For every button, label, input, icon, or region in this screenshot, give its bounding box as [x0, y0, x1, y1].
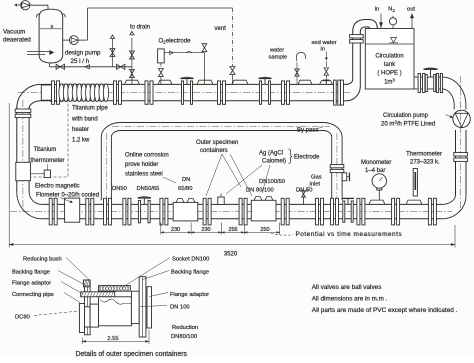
valve on riser 2 lower [129, 70, 134, 74]
pipe: bypass top run [121, 122, 324, 124]
wire: pump to vessel top [30, 4, 48, 6]
pipe: bypass left leg [100, 137, 102, 200]
svg-text:inlet: inlet [310, 182, 321, 188]
svg-text:heater: heater [72, 127, 89, 133]
svg-text:273–323 k.: 273–323 k. [410, 160, 440, 166]
flange pair L8 [357, 198, 360, 225]
valve boss on bypass right leg [342, 173, 347, 181]
hump reducer upper 1 [158, 80, 172, 84]
valve V1 on drain header [56, 64, 60, 69]
svg-text:Electro magnetic: Electro magnetic [35, 184, 80, 190]
detail leaders right [122, 258, 170, 288]
flange pair L7 [281, 198, 284, 225]
pipe: left vertical (titanium) leg [16, 107, 18, 192]
svg-text:All parts are made of PVC exc: All parts are made of PVC except where i… [312, 307, 458, 314]
thermometer boss on left leg [16, 162, 31, 180]
detail: socket crosshatched block [99, 286, 131, 292]
gas inlet valve DN50 [303, 198, 305, 205]
svg-text:tank: tank [384, 62, 396, 68]
extension line far left of loop [8, 103, 10, 248]
svg-text:20 m3/h PTFE Lined: 20 m3/h PTFE Lined [381, 120, 435, 128]
open triangle on riser 1 [110, 35, 114, 38]
vessel sparger inlet [27, 50, 51, 52]
hump reducer upper 5 [320, 81, 333, 85]
pipe: pump discharge vertical [455, 130, 457, 195]
svg-text:out: out [407, 7, 415, 13]
pipe: upper row body rails [41, 83, 346, 85]
level symbol nabla [391, 38, 397, 43]
flange pair L2 [86, 198, 89, 225]
centerline lower row [10, 211, 452, 213]
flange pair L4 [160, 198, 163, 225]
wire: O2 electrode signal line [164, 52, 204, 54]
detail: left backing flange [85, 280, 91, 335]
detail: connecting pipe steps [79, 304, 84, 333]
open triangle riser 2 [130, 32, 134, 35]
svg-text:All valves are ball valves: All valves are ball valves [312, 284, 382, 291]
elbow: tank outlet down to pump [442, 77, 466, 105]
valve on vent riser [230, 67, 235, 71]
wire: top header line [88, 7, 233, 9]
branch: drain riser 1 [112, 39, 114, 67]
branch: right O2 riser [203, 53, 205, 85]
flange pair L1 [49, 198, 52, 225]
leader to flowmeter [60, 198, 73, 203]
centerline bypass legs [105, 133, 107, 206]
wire: vessel bottom outlet [49, 63, 51, 67]
svg-text:Thermometer: Thermometer [406, 152, 442, 158]
elbow: riser top into tank [353, 20, 378, 33]
svg-text:Connecting pipe: Connecting pipe [12, 292, 54, 298]
hump reducer upper 3 [232, 80, 248, 84]
electrode stem on row [218, 197, 224, 205]
svg-text:x: x [51, 24, 54, 30]
svg-text:sed water: sed water [312, 40, 337, 46]
centerline upper row [18, 92, 350, 94]
pump: design pump symbol [63, 39, 70, 41]
svg-text:230: 230 [201, 227, 210, 233]
elbow: lower-left [17, 192, 42, 219]
svg-text:N2: N2 [388, 7, 395, 13]
thermometer [413, 169, 417, 197]
svg-text:Backing flange: Backing flange [171, 270, 209, 276]
svg-text:deaerated: deaerated [3, 37, 31, 44]
flange pair F1 upper [52, 81, 55, 104]
flange pair L6 [239, 198, 242, 225]
pipe: tank riser vertical [352, 32, 354, 80]
svg-text:prove holder: prove holder [125, 162, 158, 168]
branch: to-drain riser 2 [131, 38, 133, 85]
svg-text:Flometer 0–20/h cooled: Flometer 0–20/h cooled [36, 193, 99, 199]
svg-text:DN50/65: DN50/65 [137, 186, 160, 192]
svg-text:2.55: 2.55 [107, 336, 118, 342]
svg-text:Online corrosion: Online corrosion [125, 153, 169, 159]
leaders from electrode label [226, 165, 262, 194]
valve with handwheel upper 2 [260, 81, 262, 104]
flange pair L9 [392, 198, 395, 225]
detail: right flange adaptor [147, 287, 152, 328]
detail: reducing bush hatched [83, 280, 90, 287]
wire: water sample dip line [296, 62, 298, 84]
elbow: bypass top-right [323, 123, 342, 138]
hump reducer upper 4 [298, 80, 312, 84]
band heater helix on titanium pipe [59, 84, 64, 102]
flange pair F3 upper [145, 81, 148, 104]
svg-text:1.2 kw: 1.2 kw [72, 138, 90, 144]
svg-text:250: 250 [260, 227, 269, 233]
valve on water sample line [295, 69, 299, 73]
svg-text:Ag (AgCl: Ag (AgCl [259, 151, 283, 157]
flange pair on tank outlet [418, 74, 420, 93]
detail: main container cylinder DN100 [99, 297, 132, 326]
container 1: outer specimen container [173, 202, 198, 221]
valve with handwheel lower 1 [138, 200, 140, 222]
flange pair F2 upper [114, 81, 117, 104]
tank nozzle: N2 with gauge [389, 18, 396, 25]
centerline left leg [22, 100, 24, 211]
detail: reduction piece [131, 291, 139, 323]
pump: circulation pump [453, 110, 470, 127]
svg-text:design pump: design pump [65, 50, 101, 57]
hump with thermometer tap [406, 200, 422, 204]
svg-text:Reducing bush: Reducing bush [23, 257, 62, 263]
pipe: bypass right leg [331, 137, 333, 200]
svg-text:with band: with band [71, 117, 98, 123]
detail: flange adaptor hatched strip [81, 292, 115, 297]
elbow: upper row right end turning up [346, 87, 360, 101]
hump reducer upper 2 [197, 80, 213, 84]
svg-text:Circulation: Circulation [375, 54, 403, 60]
svg-text:Socket DN100: Socket DN100 [172, 257, 209, 263]
leader to pump [446, 115, 453, 118]
svg-text:1–4 bar: 1–4 bar [365, 168, 385, 174]
centerline bypass run [112, 126, 330, 128]
svg-text:O2electrode: O2electrode [159, 38, 192, 44]
detail dimension 255 [82, 340, 149, 342]
valve on drain riser 1 [110, 49, 115, 53]
svg-text:DN 80/100: DN 80/100 [246, 188, 274, 194]
svg-text:Details of outer specimen cont: Details of outer specimen containers [76, 351, 188, 358]
svg-text:( HOPE ): ( HOPE ) [377, 71, 401, 77]
water sample hook symbol [297, 53, 306, 62]
pipe: tank outlet [414, 76, 442, 78]
svg-text:By pass: By pass [297, 128, 318, 134]
flange pair L3 [123, 198, 126, 225]
wire: pump suction stub with arrow [15, 4, 23, 6]
pipe: lower row body rails [42, 203, 442, 205]
flowmeter box [65, 198, 80, 222]
elbow: upper-left [17, 84, 41, 108]
valve on sea water line [324, 68, 328, 72]
svg-text:DN50: DN50 [112, 186, 127, 192]
thermometer symbol on left leg [44, 170, 50, 178]
leader gas inlet [304, 187, 310, 197]
coupling box after elbow [41, 85, 51, 100]
svg-text:Flange adaptor: Flange adaptor [12, 281, 51, 287]
elbow: bypass top-left [101, 123, 120, 138]
monometer gauge [378, 190, 380, 200]
svg-text:DN80/100: DN80/100 [171, 334, 197, 340]
flange on tank outlet right [436, 74, 438, 93]
flange pair on pump discharge [454, 153, 468, 156]
tank: circulation tank HDPE [365, 29, 414, 90]
svg-text:Potential vs time measurements: Potential vs time measurements [296, 231, 403, 238]
wire: sea water inlet line with arrow [325, 52, 327, 61]
label: Potential vs time measurements [271, 234, 293, 236]
svg-text:DN: DN [182, 177, 190, 183]
svg-text:DN100/50: DN100/50 [259, 179, 285, 185]
leaders from containers label [206, 154, 222, 196]
flange pair on tank riser [350, 35, 364, 38]
wire: riser to top header [87, 8, 89, 40]
flange pair L10 [428, 198, 431, 225]
vessel side nubs [37, 14, 66, 18]
O2 electrode holder [158, 49, 165, 63]
vessel liquid level line with x mark [40, 28, 62, 30]
svg-text:to drain: to drain [130, 25, 150, 31]
overall dimension 3520 [9, 244, 455, 246]
flange pair on left leg [15, 109, 31, 112]
tank nozzle: out [411, 14, 413, 29]
flow arrow on drain header [85, 65, 90, 69]
valve on drain header right [117, 64, 121, 69]
container 2: outer specimen container [251, 200, 276, 221]
svg-text:Electrode: Electrode [294, 155, 320, 161]
centerline pump leg [460, 76, 462, 212]
svg-text:Reduction: Reduction [172, 325, 198, 331]
svg-text:Gas: Gas [311, 175, 322, 181]
svg-text:3520: 3520 [224, 252, 238, 258]
valve on right O2 riser [202, 44, 207, 48]
svg-text:Vacuum: Vacuum [3, 29, 25, 36]
svg-text:Backing flange: Backing flange [12, 270, 50, 276]
svg-text:Titanium: Titanium [34, 147, 57, 153]
dimension extension lines [160, 223, 162, 235]
dimension line 230-230-255-250 [161, 231, 280, 233]
svg-text:in: in [375, 7, 380, 13]
valve with handwheel on tank outlet [425, 75, 427, 92]
tee: bypass right leg junction flanges [316, 198, 319, 225]
valve on riser 2 upper [129, 51, 134, 55]
elbow: lower-right from pump leg [442, 195, 466, 219]
wire: design pump discharge to riser [78, 39, 87, 41]
svg-text:65/80: 65/80 [178, 186, 193, 192]
svg-text:in: in [321, 47, 326, 53]
svg-text:Circulation pump: Circulation pump [383, 113, 429, 119]
svg-text:Calomel): Calomel) [262, 159, 286, 165]
detail leaders left [66, 258, 90, 281]
svg-text:sample: sample [269, 55, 288, 61]
dashed leader box for heater label [31, 102, 68, 178]
vessel: vacuum deaerator [39, 18, 63, 56]
flange pair L5 [203, 198, 206, 225]
svg-text:vent: vent [215, 26, 227, 32]
hump with monometer tap [369, 200, 385, 204]
svg-text:containers: containers [200, 148, 228, 154]
wire: drain header y=66.8 [50, 66, 132, 68]
svg-text:255: 255 [228, 227, 237, 233]
svg-text:DN 100: DN 100 [170, 305, 190, 311]
vacuum pump P0 at top left [21, 1, 30, 10]
flange pair F4 upper [218, 81, 221, 104]
flange stack at sea water tie-in [334, 80, 337, 105]
hump reducer upper 0 at to-drain riser [125, 80, 140, 84]
valve with handwheel lower 2 [343, 201, 345, 222]
tee: bypass left leg junction [104, 198, 107, 225]
sea water tie-in stem [325, 80, 327, 84]
svg-text:230: 230 [171, 227, 180, 233]
svg-text:thermometer: thermometer [31, 158, 65, 164]
valve with handwheel upper 1 [182, 81, 184, 104]
svg-text:25 l / h: 25 l / h [71, 58, 90, 65]
flange pair F5 upper [282, 81, 285, 104]
detail: right backing flange [139, 277, 146, 337]
flange pair on bypass right leg [330, 165, 344, 168]
tank nozzle: in [380, 14, 382, 29]
svg-text:stainless steel: stainless steel [125, 172, 163, 178]
svg-text:Monometer: Monometer [361, 160, 391, 166]
svg-text:Titanium pipe: Titanium pipe [72, 106, 108, 112]
svg-text:Outer specimen: Outer specimen [196, 140, 238, 146]
svg-text:Flange adaptor: Flange adaptor [170, 292, 209, 298]
valve below O2 holder [158, 69, 163, 73]
wire: vent riser [232, 8, 234, 66]
svg-text:All dimensions are in m.m .: All dimensions are in m.m . [312, 295, 388, 302]
tank liquid level line [365, 43, 414, 45]
svg-text:water: water [269, 48, 284, 54]
svg-text:DC80: DC80 [15, 315, 30, 321]
